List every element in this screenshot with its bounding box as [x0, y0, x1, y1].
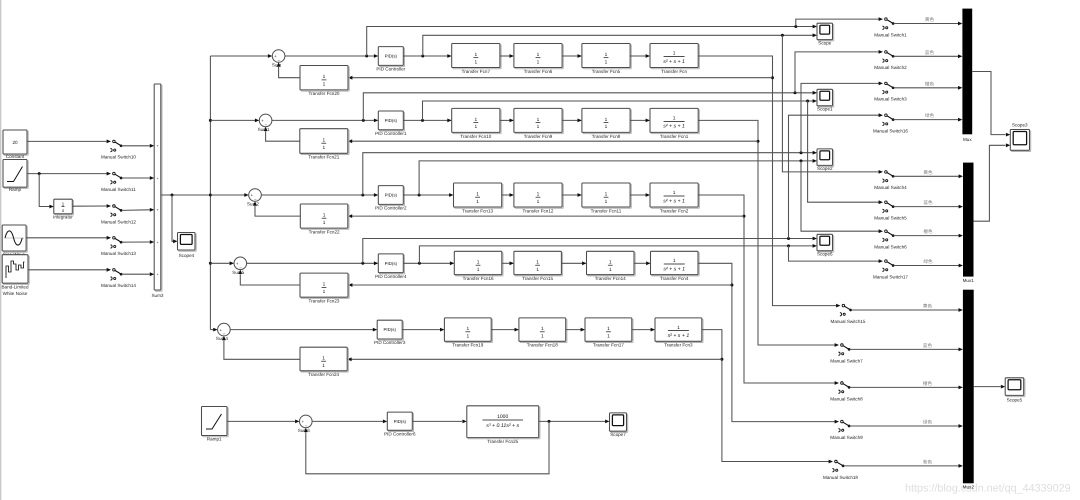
- transfer fcn block Transfer Fcn23 (feedback): [300, 273, 349, 303]
- svg-text:Manual Switch12: Manual Switch12: [101, 219, 136, 224]
- svg-text:Manual Switch18: Manual Switch18: [823, 475, 858, 480]
- transfer fcn block Transfer Fcn16: [454, 251, 503, 281]
- svg-text:Transfer Fcn: Transfer Fcn: [661, 69, 687, 74]
- manual switch Manual Switch3: [874, 82, 907, 102]
- wire Transfer Fcn14 to Transfer Fcn4: [634, 261, 651, 265]
- wire Transfer Fcn25 to Scope7: [539, 420, 610, 424]
- svg-text:s² + s + 1: s² + s + 1: [663, 198, 685, 204]
- integrator block Integrator (1/s): [53, 199, 73, 219]
- svg-text:Transfer Fcn17: Transfer Fcn17: [593, 343, 624, 348]
- svg-text:Scope6: Scope6: [817, 252, 833, 257]
- wire Manual Switch15 to Mux2 (黄色): [851, 304, 963, 312]
- scope block Scope6: [817, 234, 834, 256]
- wire feedback bottom loop to Sum6: [304, 421, 549, 473]
- wire Manual Switch8 to Mux2 (橙色): [850, 381, 963, 389]
- wire Mux to Scope3 input 1: [972, 72, 1010, 137]
- manual switch Manual Switch16: [873, 113, 908, 133]
- svg-text:Manual Switch7: Manual Switch7: [830, 358, 863, 363]
- svg-text:Transfer Fcn12: Transfer Fcn12: [523, 208, 554, 213]
- transfer fcn block Transfer Fcn10: [452, 108, 501, 138]
- wire Transfer Fcn10 to Transfer Fcn9: [500, 119, 514, 123]
- svg-text:Mux1: Mux1: [963, 278, 975, 283]
- svg-text:1: 1: [474, 59, 477, 65]
- wire Manual Switch2 to Mux (蓝色): [894, 50, 963, 58]
- svg-text:PID Controller2: PID Controller2: [375, 206, 407, 211]
- transfer fcn block Transfer Fcn21 (feedback): [300, 129, 349, 160]
- svg-text:蓝色: 蓝色: [925, 50, 935, 55]
- svg-text:Mux: Mux: [963, 137, 972, 142]
- transfer fcn block Transfer Fcn24 (feedback): [300, 347, 348, 377]
- wire Transfer Fcn7 to Transfer Fcn6: [500, 54, 514, 58]
- source block Ramp1: [202, 407, 229, 442]
- svg-text:橙色: 橙色: [923, 381, 933, 386]
- svg-text:1: 1: [673, 51, 676, 57]
- wire control tap row4 to scope and switch: [419, 244, 878, 263]
- svg-text:Scope2: Scope2: [817, 166, 833, 171]
- wire feedback row4 into Transfer Fcn23: [348, 283, 732, 287]
- manual switch Manual Switch9: [830, 420, 863, 440]
- svg-text:1: 1: [477, 259, 480, 265]
- wire Transfer Fcn21 to Sum1 minus input: [264, 127, 300, 142]
- svg-text:1: 1: [322, 355, 325, 361]
- svg-text:PID Controller1: PID Controller1: [375, 131, 407, 136]
- wire bus to Sum row2: [210, 119, 259, 123]
- transfer fcn block Transfer Fcn17: [585, 318, 633, 348]
- svg-text:Manual Switch13: Manual Switch13: [101, 251, 136, 256]
- wire Sum1 to PID row2: [272, 119, 378, 123]
- mux block Mux: [962, 9, 972, 142]
- transfer fcn block Transfer Fcn13: [454, 183, 503, 213]
- scope block Scope: [817, 23, 834, 45]
- sum junction Sum5: [232, 257, 246, 275]
- source block Constant (value 20): [3, 130, 28, 159]
- svg-text:Transfer Fcn2: Transfer Fcn2: [660, 208, 689, 213]
- wire Manual Switch17 to Mux1 (绿色): [894, 259, 963, 267]
- sum junction Sum1: [258, 114, 272, 132]
- wire Manual Switch13 to Sum3: [122, 240, 155, 244]
- svg-text:Transfer Fcn20: Transfer Fcn20: [309, 91, 340, 96]
- wire bus to Sum row4: [210, 261, 234, 265]
- svg-text:1: 1: [323, 212, 326, 218]
- svg-text:Manual Switch9: Manual Switch9: [830, 435, 863, 440]
- svg-text:Transfer Fcn1: Transfer Fcn1: [660, 134, 689, 139]
- wire feedback row3 into Transfer Fcn22: [348, 214, 744, 218]
- manual switch Manual Switch2: [874, 50, 907, 70]
- svg-text:Transfer Fcn10: Transfer Fcn10: [460, 134, 491, 139]
- svg-text:PID Controller: PID Controller: [376, 67, 405, 72]
- svg-text:Transfer Fcn9: Transfer Fcn9: [524, 134, 553, 139]
- svg-text:1: 1: [322, 363, 325, 369]
- transfer fcn block Transfer Fcn4: [651, 251, 700, 281]
- svg-text:黄色: 黄色: [923, 304, 933, 309]
- wire error tap row2 to scope and switch: [363, 52, 879, 121]
- wire Sum5 to PID row4: [247, 261, 379, 265]
- svg-text:Transfer Fcn5: Transfer Fcn5: [592, 69, 621, 74]
- svg-text:1000: 1000: [497, 414, 508, 420]
- mux block Mux2 label: [963, 484, 975, 489]
- svg-text:1: 1: [541, 326, 544, 332]
- transfer fcn block Transfer Fcn2: [650, 183, 699, 213]
- svg-text:蓝色: 蓝色: [923, 200, 933, 205]
- svg-text:绿色: 绿色: [923, 259, 933, 264]
- wire error tap row1 to scope and switch: [367, 19, 879, 56]
- svg-text:1: 1: [536, 267, 539, 273]
- svg-text:1: 1: [474, 124, 477, 130]
- wire Transfer Fcn15 to Transfer Fcn14: [561, 261, 586, 265]
- manual switch Manual Switch11: [101, 172, 136, 192]
- wire Manual Switch18 to Mux2 (紫色): [844, 459, 963, 467]
- svg-text:s³ + 0.11s² + s: s³ + 0.11s² + s: [486, 423, 519, 429]
- svg-text:1: 1: [466, 326, 469, 332]
- svg-text:1: 1: [537, 124, 540, 130]
- scope block Scope2: [817, 149, 834, 171]
- wire control tap row1 to scope and switch: [423, 33, 879, 172]
- wire Transfer Fcn18 to Transfer Fcn17: [566, 328, 585, 332]
- scope block Scope5: [1005, 378, 1025, 403]
- wire Transfer Fcn23 to Sum5 minus input: [238, 270, 300, 285]
- svg-text:1: 1: [673, 116, 676, 122]
- wire Constant to Manual Switch10: [27, 140, 107, 142]
- svg-text:Transfer Fcn21: Transfer Fcn21: [308, 155, 339, 160]
- svg-text:1: 1: [474, 117, 477, 123]
- manual switch Manual Switch15: [831, 304, 866, 324]
- wire branch to Scope4: [172, 195, 178, 243]
- wire Transfer Fcn13 to Transfer Fcn12: [502, 193, 514, 197]
- svg-text:Sum1: Sum1: [258, 127, 270, 132]
- transfer fcn block Transfer Fcn12: [514, 183, 563, 213]
- wire Manual Switch10 to Sum3: [122, 144, 155, 148]
- wire Manual Switch11 to Sum3: [122, 176, 155, 180]
- pid controller PID Controller2: [375, 186, 407, 211]
- wire Sum3 output to row bus (node at x210): [161, 194, 211, 197]
- svg-text:Manual Switch1: Manual Switch1: [874, 32, 907, 37]
- wire Manual Switch4 to Mux1 (黄色): [894, 170, 963, 178]
- left window border: [0, 0, 2, 500]
- wire PID to first transfer fcn row2: [403, 119, 451, 123]
- svg-text:PID Controller6: PID Controller6: [384, 431, 416, 436]
- wire Manual Switch9 to Mux2 (绿色): [850, 420, 963, 428]
- svg-text:1: 1: [609, 259, 612, 265]
- svg-text:Transfer Fcn15: Transfer Fcn15: [522, 276, 553, 281]
- svg-text:1: 1: [605, 52, 608, 58]
- wire chain output row4 down to feedback and Mux2 switch: [698, 263, 835, 421]
- transfer fcn block Transfer Fcn1: [650, 108, 699, 138]
- svg-text:Manual Switch11: Manual Switch11: [101, 187, 136, 192]
- wire Ramp branch to Integrator: [39, 174, 54, 209]
- svg-text:1: 1: [537, 191, 540, 197]
- svg-text:PID Controller4: PID Controller4: [375, 274, 407, 279]
- scope block Scope1: [817, 89, 834, 111]
- svg-text:s² + s + 1: s² + s + 1: [663, 124, 685, 130]
- svg-text:White Noise: White Noise: [3, 291, 28, 296]
- svg-text:+: +: [157, 273, 159, 277]
- svg-text:Manual Switch8: Manual Switch8: [830, 396, 863, 401]
- svg-text:Sum5: Sum5: [232, 270, 244, 275]
- svg-text:Band-Limited: Band-Limited: [1, 285, 29, 290]
- svg-text:Sum6: Sum6: [298, 428, 310, 433]
- source block Ramp: [3, 160, 28, 193]
- svg-text:Sum2: Sum2: [247, 202, 259, 207]
- wire chain output row3 down to feedback and Mux2 switch: [698, 195, 835, 383]
- sum junction Sum: [272, 50, 285, 68]
- svg-text:1: 1: [476, 191, 479, 197]
- svg-text:Mux2: Mux2: [963, 484, 975, 489]
- svg-text:Integrator: Integrator: [53, 215, 73, 220]
- svg-text:Transfer Fcn6: Transfer Fcn6: [524, 69, 553, 74]
- pid controller PID Controller: [376, 47, 405, 72]
- wire Transfer Fcn20 to Sum minus input: [277, 62, 300, 77]
- svg-text:Transfer Fcn7: Transfer Fcn7: [462, 69, 491, 74]
- wire Manual Switch6 to Mux1 (橙色): [894, 229, 963, 237]
- transfer fcn block Transfer Fcn9: [514, 108, 563, 138]
- svg-text:1: 1: [476, 199, 479, 205]
- transfer fcn block Transfer Fcn20 (feedback): [300, 66, 349, 97]
- wire Transfer Fcn5 to Transfer Fcn: [630, 54, 650, 58]
- svg-text:Manual Switch5: Manual Switch5: [874, 216, 907, 221]
- transfer fcn block Transfer Fcn15: [514, 251, 563, 281]
- wire Transfer Fcn22 to Sum2 minus input: [253, 201, 300, 216]
- transfer fcn block Transfer Fcn19: [444, 318, 492, 348]
- wire PID to first transfer fcn row4: [403, 261, 454, 265]
- svg-text:Scope7: Scope7: [610, 432, 626, 437]
- manual switch Manual Switch7: [830, 343, 863, 363]
- manual switch Manual Switch10: [101, 140, 136, 160]
- svg-text:+: +: [157, 208, 159, 212]
- svg-text:Manual Switch16: Manual Switch16: [873, 129, 908, 134]
- wire Transfer Fcn6 to Transfer Fcn5: [562, 54, 582, 58]
- manual switch Manual Switch14: [101, 268, 136, 288]
- svg-text:Sum: Sum: [272, 63, 282, 68]
- svg-text:Manual Switch15: Manual Switch15: [831, 319, 866, 324]
- svg-text:1: 1: [605, 124, 608, 130]
- svg-text:Transfer Fcn19: Transfer Fcn19: [452, 343, 483, 348]
- transfer fcn block Transfer Fcn5: [582, 44, 631, 74]
- wire Mux2 to Scope5: [974, 385, 1006, 389]
- transfer fcn block Transfer Fcn3: [655, 318, 703, 348]
- svg-text:橙色: 橙色: [925, 81, 935, 86]
- svg-text:1: 1: [605, 117, 608, 123]
- wire PID to first transfer fcn row5: [402, 328, 444, 332]
- svg-text:Transfer Fcn8: Transfer Fcn8: [592, 134, 621, 139]
- svg-text:Manual Switch6: Manual Switch6: [874, 245, 907, 250]
- svg-text:1: 1: [323, 220, 326, 226]
- svg-text:Ramp: Ramp: [9, 187, 22, 192]
- svg-text:黄色: 黄色: [925, 17, 935, 22]
- manual switch Manual Switch12: [101, 204, 136, 224]
- svg-text:+: +: [157, 240, 159, 244]
- wire Transfer Fcn12 to Transfer Fcn11: [562, 193, 582, 197]
- svg-text:蓝色: 蓝色: [923, 343, 933, 348]
- svg-text:Transfer Fcn3: Transfer Fcn3: [664, 343, 693, 348]
- transfer fcn block Transfer Fcn14: [587, 251, 636, 281]
- svg-text:Manual Switch10: Manual Switch10: [101, 155, 136, 160]
- sum junction Sum6: [298, 415, 312, 433]
- svg-text:Manual Switch2: Manual Switch2: [874, 65, 907, 70]
- wire Manual Switch7 to Mux2 (蓝色): [850, 343, 963, 351]
- svg-text:1: 1: [323, 74, 326, 80]
- manual switch Manual Switch1: [874, 17, 907, 37]
- transfer fcn block Transfer Fcn25: [467, 406, 540, 444]
- mux block Mux1: [963, 163, 975, 283]
- wire Sum2 to PID row3: [261, 193, 378, 197]
- svg-text:1: 1: [607, 333, 610, 339]
- wire Integrator to Manual Switch12: [72, 205, 106, 207]
- svg-text:Scope1: Scope1: [817, 107, 833, 112]
- svg-text:PID(s): PID(s): [385, 54, 398, 59]
- svg-text:Transfer Fcn24: Transfer Fcn24: [308, 372, 339, 377]
- svg-text:s² + s + 1: s² + s + 1: [668, 333, 690, 339]
- transfer fcn block Transfer Fcn11: [582, 183, 631, 213]
- svg-text:1: 1: [605, 59, 608, 65]
- svg-text:1: 1: [537, 117, 540, 123]
- svg-text:PID(s): PID(s): [394, 419, 407, 424]
- svg-text:Transfer Fcn16: Transfer Fcn16: [463, 276, 494, 281]
- manual switch Manual Switch4: [874, 170, 907, 190]
- wire PID to first transfer fcn row3: [403, 193, 453, 197]
- transfer fcn block Transfer Fcn8: [582, 108, 631, 138]
- sum junction Sum4: [216, 323, 230, 341]
- wire PID to first transfer fcn row1: [403, 54, 451, 58]
- svg-text:Manual Switch14: Manual Switch14: [101, 283, 136, 288]
- svg-text:绿色: 绿色: [925, 113, 935, 118]
- svg-text:1: 1: [322, 137, 325, 143]
- svg-text:s² + s + 1: s² + s + 1: [663, 266, 685, 272]
- svg-text:Scope5: Scope5: [1007, 398, 1023, 403]
- wire PID Controller6 to Transfer Fcn25: [412, 420, 467, 424]
- svg-text:1: 1: [673, 190, 676, 196]
- svg-text:1: 1: [605, 191, 608, 197]
- svg-text:1: 1: [536, 259, 539, 265]
- svg-text:1: 1: [673, 258, 676, 264]
- wire Sum to PID row1: [285, 54, 378, 58]
- manual switch Manual Switch5: [874, 200, 907, 220]
- wire error tap row4 to scope and switch: [363, 115, 879, 263]
- source block Band-Limited White Noise: [1, 255, 29, 296]
- svg-text:1: 1: [537, 199, 540, 205]
- wire Mux1 to Scope3 input 2: [974, 143, 1011, 221]
- svg-text:20: 20: [12, 140, 18, 145]
- wire Band-Limited White Noise to Manual Switch14: [28, 269, 107, 271]
- svg-text:Manual Switch4: Manual Switch4: [874, 185, 907, 190]
- svg-text:黄色: 黄色: [923, 170, 933, 175]
- svg-text:1: 1: [323, 282, 326, 288]
- wire Manual Switch16 to Mux (绿色): [894, 113, 963, 121]
- pid controller PID Controller3: [374, 320, 406, 345]
- svg-text:Scope: Scope: [818, 40, 831, 45]
- svg-text:Transfer Fcn11: Transfer Fcn11: [591, 208, 622, 213]
- svg-text:Transfer Fcn13: Transfer Fcn13: [462, 208, 493, 213]
- wire Transfer Fcn16 to Transfer Fcn15: [502, 261, 514, 265]
- wire Manual Switch3 to Mux (橙色): [894, 81, 963, 89]
- svg-text:Transfer Fcn14: Transfer Fcn14: [595, 276, 626, 281]
- svg-text:Scope3: Scope3: [1012, 123, 1028, 128]
- pid controller PID Controller6: [384, 412, 416, 436]
- svg-text:Sum3: Sum3: [151, 293, 163, 298]
- wire control tap row3 to scope and switch: [419, 159, 879, 231]
- svg-text:1: 1: [322, 145, 325, 151]
- transfer fcn block Transfer Fcn18: [519, 318, 567, 348]
- svg-text:1: 1: [537, 59, 540, 65]
- wire Sum4 to PID row5: [230, 328, 377, 332]
- svg-text:https://blog.csdn.net/qq_44339: https://blog.csdn.net/qq_44339029: [905, 483, 1071, 495]
- mux block Mux2: [963, 290, 974, 484]
- wire feedback row2 into Transfer Fcn21: [348, 139, 758, 143]
- svg-text:PID Controller3: PID Controller3: [374, 340, 406, 345]
- manual switch Manual Switch13: [101, 236, 136, 256]
- wire Transfer Fcn9 to Transfer Fcn8: [562, 119, 582, 123]
- sum junction Sum2: [247, 189, 261, 207]
- transfer fcn block Transfer Fcn7: [452, 44, 501, 74]
- wire Manual Switch14 to Sum3: [122, 272, 155, 276]
- transfer fcn block Transfer Fcn22 (feedback): [300, 204, 349, 234]
- scope block Scope4: [178, 233, 197, 259]
- svg-text:s² + s + 1: s² + s + 1: [663, 59, 685, 65]
- transfer fcn block Transfer Fcn: [650, 44, 699, 74]
- svg-text:Transfer Fcn25: Transfer Fcn25: [487, 439, 518, 444]
- svg-text:橙色: 橙色: [923, 229, 933, 234]
- svg-text:绿色: 绿色: [923, 420, 933, 425]
- pid controller PID Controller1: [375, 111, 407, 136]
- pid controller PID Controller4: [375, 254, 407, 279]
- svg-text:1: 1: [474, 52, 477, 58]
- svg-text:1: 1: [537, 52, 540, 58]
- svg-text:紫色: 紫色: [923, 459, 933, 464]
- svg-text:1: 1: [323, 289, 326, 295]
- wire Manual Switch1 to Mux (黄色): [894, 17, 963, 25]
- svg-text:1: 1: [605, 199, 608, 205]
- watermark: [905, 483, 1071, 495]
- sum block Sum3: [151, 84, 163, 298]
- wire Transfer Fcn19 to Transfer Fcn18: [491, 328, 519, 332]
- wire Sum6 to PID Controller6: [312, 420, 387, 424]
- source block Sine Wave: [2, 225, 27, 257]
- svg-text:PID(s): PID(s): [385, 118, 398, 123]
- wire bus to Sum row1: [210, 54, 272, 58]
- svg-text:1: 1: [677, 325, 680, 331]
- wire control tap row2 to scope and switch: [423, 99, 879, 202]
- svg-text:1: 1: [323, 82, 326, 88]
- svg-text:1: 1: [466, 333, 469, 339]
- manual switch Manual Switch6: [874, 229, 907, 249]
- wire Transfer Fcn17 to Transfer Fcn3: [632, 328, 655, 332]
- wire chain output row5 down to feedback and Mux2 switch: [702, 330, 829, 462]
- svg-text:Transfer Fcn18: Transfer Fcn18: [527, 343, 558, 348]
- wire Manual Switch5 to Mux1 (蓝色): [894, 200, 963, 208]
- transfer fcn block Transfer Fcn6: [514, 44, 563, 74]
- wire Transfer Fcn24 to Sum4 minus input: [222, 336, 300, 359]
- svg-text:Transfer Fcn22: Transfer Fcn22: [309, 229, 340, 234]
- svg-text:+: +: [157, 144, 159, 148]
- svg-text:Manual Switch3: Manual Switch3: [874, 97, 907, 102]
- svg-text:PID(s): PID(s): [383, 327, 396, 332]
- svg-text:PID(s): PID(s): [385, 193, 398, 198]
- wire Sine Wave to Manual Switch13: [26, 237, 106, 239]
- wire error tap row3 to scope and switch: [363, 83, 879, 195]
- svg-text:1: 1: [477, 267, 480, 273]
- wire left distribution bus vertical: [209, 56, 212, 330]
- svg-text:1: 1: [609, 267, 612, 273]
- svg-text:Sum4: Sum4: [216, 336, 228, 341]
- wire Manual Switch12 to Sum3: [122, 208, 155, 212]
- wire chain output row1 down to feedback and Mux2 switch: [698, 56, 836, 306]
- manual switch Manual Switch17: [873, 259, 908, 279]
- wire chain output row2 down to feedback and Mux2 switch: [698, 120, 835, 345]
- manual switch Manual Switch8: [830, 381, 863, 401]
- svg-text:+: +: [157, 176, 159, 180]
- wire bus to Sum row3: [210, 193, 248, 197]
- svg-text:Constant: Constant: [6, 154, 25, 159]
- svg-text:Ramp1: Ramp1: [207, 436, 222, 441]
